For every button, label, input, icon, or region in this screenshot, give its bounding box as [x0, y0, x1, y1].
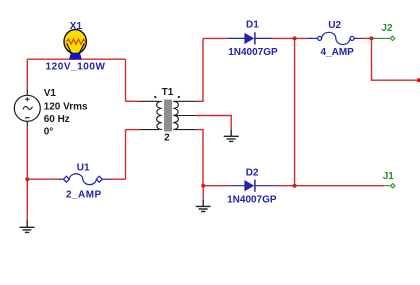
- svg-text:D2: D2: [246, 168, 259, 179]
- svg-text:120 Vrms: 120 Vrms: [44, 101, 88, 112]
- svg-text:0°: 0°: [44, 127, 54, 138]
- svg-text:60 Hz: 60 Hz: [44, 114, 70, 125]
- svg-text:J1: J1: [383, 171, 395, 182]
- svg-text:D1: D1: [246, 19, 259, 30]
- svg-text:U1: U1: [77, 162, 90, 173]
- svg-text:J2: J2: [381, 23, 393, 34]
- svg-text:2: 2: [164, 132, 170, 143]
- svg-text:V1: V1: [44, 88, 57, 99]
- svg-text:120V_100W: 120V_100W: [46, 62, 106, 73]
- svg-text:4_AMP: 4_AMP: [321, 47, 355, 58]
- svg-text:X1: X1: [70, 21, 83, 32]
- svg-text:1N4007GP: 1N4007GP: [227, 195, 277, 206]
- svg-text:2_AMP: 2_AMP: [66, 190, 102, 201]
- svg-text:U2: U2: [328, 20, 341, 31]
- svg-text:1N4007GP: 1N4007GP: [228, 47, 278, 58]
- svg-text:T1: T1: [162, 87, 174, 98]
